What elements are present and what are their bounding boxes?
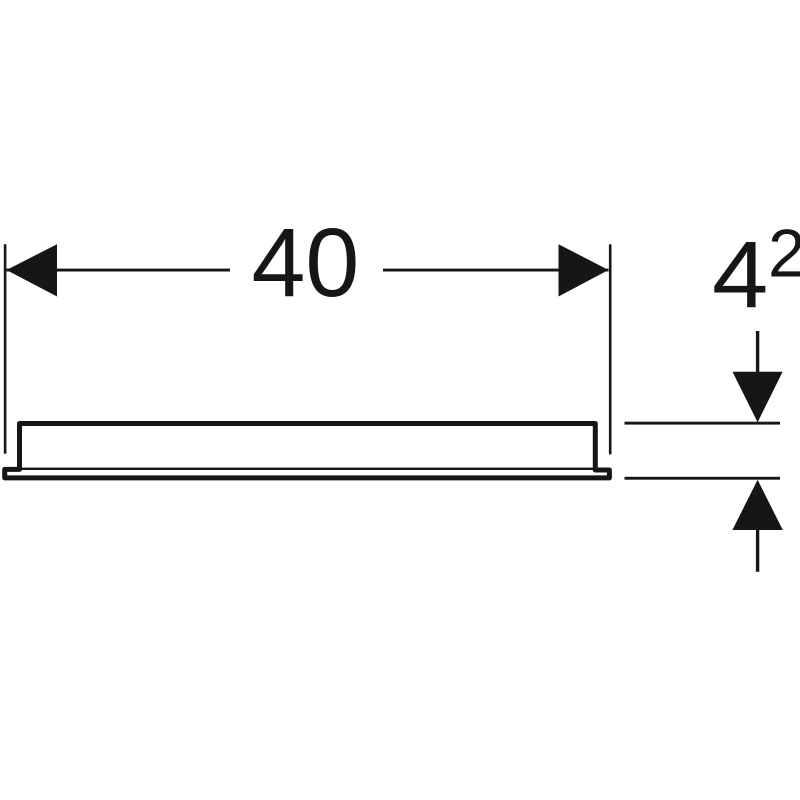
extension line left <box>4 244 7 454</box>
arrowhead right <box>559 244 609 296</box>
dimension line 40 left segment <box>7 269 231 272</box>
svg-text:2: 2 <box>768 216 800 291</box>
svg-text:40: 40 <box>251 208 359 317</box>
down arrowhead <box>733 372 783 423</box>
reference line bottom <box>625 477 781 480</box>
arrowhead left <box>7 244 58 296</box>
up arrowhead <box>732 480 782 530</box>
svg-text:4: 4 <box>712 223 768 329</box>
down arrow tail <box>756 331 759 373</box>
profile outline <box>5 424 610 478</box>
reference line top <box>625 422 781 425</box>
profile front edge thin line <box>22 468 594 470</box>
dimension line 40 right segment <box>383 269 609 272</box>
up arrow tail <box>756 529 759 572</box>
extension line right <box>609 244 612 454</box>
